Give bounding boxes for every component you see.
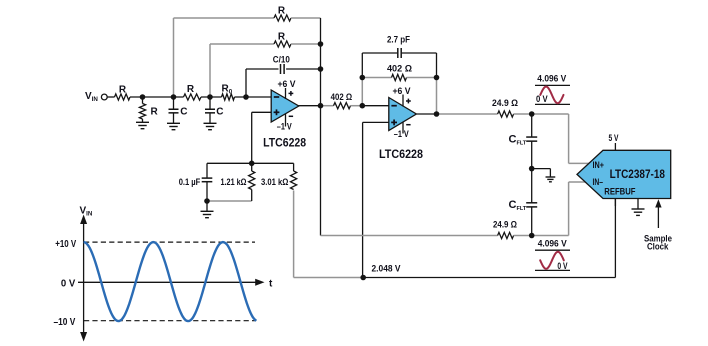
svg-text:R: R <box>278 32 286 43</box>
svg-text:0 V: 0 V <box>536 94 548 105</box>
svg-text:0 V: 0 V <box>61 278 76 289</box>
svg-text:Clock: Clock <box>647 242 669 253</box>
svg-text:4.096 V: 4.096 V <box>537 74 567 85</box>
svg-text:–1 V: –1 V <box>394 129 410 140</box>
svg-text:LTC6228: LTC6228 <box>263 138 307 150</box>
svg-text:2.7 pF: 2.7 pF <box>387 35 410 46</box>
svg-text:LTC2387-18: LTC2387-18 <box>610 169 666 181</box>
svg-text:C: C <box>216 107 223 118</box>
svg-text:R: R <box>278 6 286 17</box>
svg-text:REFBUF: REFBUF <box>604 187 635 198</box>
svg-text:R: R <box>119 85 127 96</box>
svg-text:3.01 kΩ: 3.01 kΩ <box>261 177 289 188</box>
svg-text:0.1 µF: 0.1 µF <box>179 177 201 188</box>
svg-text:2.048 V: 2.048 V <box>372 264 402 275</box>
svg-text:–1 V: –1 V <box>277 122 293 133</box>
svg-text:R: R <box>151 107 159 118</box>
svg-text:5 V: 5 V <box>609 133 619 144</box>
svg-text:–10 V: –10 V <box>54 317 76 328</box>
svg-text:+6 V: +6 V <box>278 79 297 90</box>
svg-text:C: C <box>180 107 187 118</box>
svg-text:4.096 V: 4.096 V <box>538 239 568 250</box>
svg-text:C/10: C/10 <box>273 55 290 66</box>
svg-text:0 V: 0 V <box>557 261 568 272</box>
svg-text:402 Ω: 402 Ω <box>331 92 353 103</box>
svg-text:+10 V: +10 V <box>55 239 76 250</box>
svg-text:+6 V: +6 V <box>393 86 412 97</box>
svg-text:IN+: IN+ <box>593 160 605 170</box>
svg-text:IN–: IN– <box>593 177 604 187</box>
svg-text:24.9 Ω: 24.9 Ω <box>493 220 517 231</box>
svg-text:24.9 Ω: 24.9 Ω <box>492 98 518 109</box>
svg-text:LTC6228: LTC6228 <box>379 149 424 161</box>
svg-text:1.21 kΩ: 1.21 kΩ <box>221 177 247 188</box>
svg-text:402 Ω: 402 Ω <box>387 64 412 75</box>
svg-text:R: R <box>187 84 195 95</box>
